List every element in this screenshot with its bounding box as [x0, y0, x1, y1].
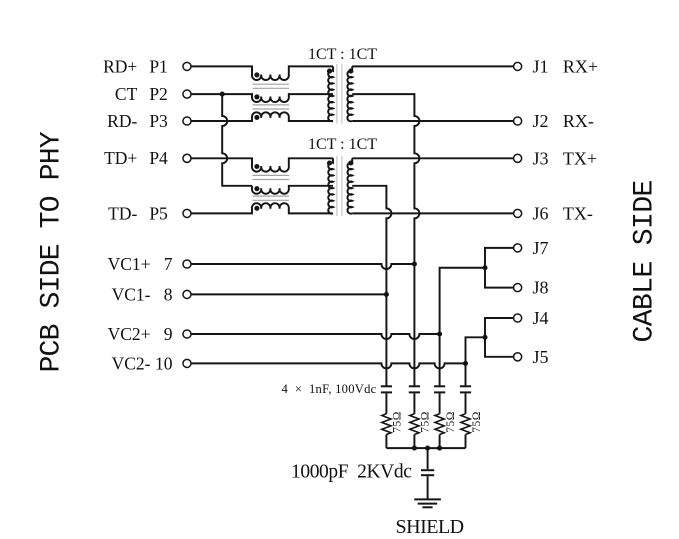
svg-text:J5: J5 [533, 347, 549, 367]
polarity dot T1 secondary (top) [348, 69, 353, 74]
svg-text:VC2+: VC2+ [108, 324, 151, 344]
wire C3 to R3 [439, 393, 441, 413]
svg-text:TD-: TD- [108, 203, 137, 223]
label TD- P5 [108, 203, 168, 223]
wire T1 bottom lead + choke winding T1c (bumps) [191, 112, 333, 121]
wire T1 secondary bottom to J2 [352, 120, 513, 122]
svg-text:1CT : 1CT: 1CT : 1CT [308, 136, 377, 153]
wire R2 to ground rail [413, 435, 415, 449]
svg-text:10: 10 [155, 353, 173, 373]
svg-text:RX-: RX- [563, 111, 594, 131]
svg-text:TD+: TD+ [104, 148, 137, 168]
wire CT P2 to T2 center winding (vertical with hops over P3 and P4 lines) [222, 94, 252, 186]
capacitor C2 1nF (plates) [409, 386, 420, 392]
wire VC2- pin10 to bus x=465 (hops over x=386,414,440) [191, 363, 465, 368]
wire J4/J5 center to bus x=465 and down to capacitor [466, 337, 486, 386]
transformer T1 primary winding (vertical scallops) [328, 66, 333, 121]
label VC2+ 9 [108, 324, 173, 344]
wire VC1- pin8 to bus x=386 [191, 293, 386, 295]
value label R2 75 ohm (rotated) [420, 411, 432, 433]
svg-text:8: 8 [164, 284, 173, 304]
svg-text:1CT : 1CT: 1CT : 1CT [308, 46, 377, 63]
wire J7/J8 bracket [485, 248, 514, 288]
pin P3 (RD-) terminal circle [183, 117, 191, 125]
wire T2 secondary bottom to J6 [352, 212, 513, 214]
junction dot VC1- at x=386 [384, 292, 389, 297]
wire J4/J5 bracket [485, 318, 514, 357]
junction dot J7/J8 center [482, 265, 487, 270]
pin J6 terminal circle [514, 209, 522, 217]
choke core lines T2 (lower pair) [253, 196, 290, 200]
label J7 [533, 238, 549, 258]
polarity dot T1 primary (top) [327, 69, 332, 74]
pin P1 (RD+) terminal circle [183, 62, 191, 70]
pin J2 terminal circle [514, 117, 522, 125]
svg-text:P1: P1 [149, 56, 167, 76]
label RD- P3 [107, 111, 168, 131]
label J2 RX- [533, 111, 594, 131]
wire C2 to R2 [413, 393, 415, 413]
wire T1 secondary center tap to vertical bus (x=414) [352, 94, 419, 386]
transformer T2 core (parallel lines) [337, 156, 342, 216]
svg-text:RD+: RD+ [103, 56, 137, 76]
junction dot VC2+ at x=440 [437, 331, 442, 336]
value label: 4 x 1nF, 100Vdc [282, 382, 377, 396]
svg-text:J2: J2 [533, 111, 549, 131]
svg-text:RD-: RD- [107, 111, 137, 131]
value label: 1000pF 2KVdc [291, 462, 412, 483]
svg-text:VC1-: VC1- [112, 284, 151, 304]
transformer T2 secondary winding (vertical scallops) [347, 158, 352, 213]
label J5 [533, 347, 549, 367]
resistor R1 75ohm (zigzag) [382, 414, 391, 435]
svg-text:J6: J6 [533, 204, 549, 224]
label VC2- 10 [112, 353, 173, 373]
pin 7 (VC1+) terminal circle [183, 260, 191, 268]
svg-text:J1: J1 [533, 57, 549, 77]
label TD+ P4 [104, 148, 168, 168]
wire ground rail [386, 447, 465, 449]
polarity dot T2 primary (top) [327, 160, 332, 165]
pin J3 terminal circle [514, 154, 522, 162]
wire R4 to ground rail [465, 435, 467, 449]
svg-text:VC1+: VC1+ [108, 254, 151, 274]
wire T2 secondary center tap to vertical bus (x=386) [352, 186, 391, 386]
wire J7/J8 center to bus x=440 and down to capacitor [440, 268, 485, 386]
net label: PCB SIDE TO PHY (left side, rotated) [37, 131, 68, 372]
junction dot rail x=427.6 [425, 446, 430, 451]
svg-text:J8: J8 [533, 278, 549, 298]
label J8 [533, 278, 549, 298]
choke core lines T2 (upper pair) [253, 175, 290, 179]
wire T2 top lead + choke winding T2a (scallops) [191, 158, 333, 171]
svg-text:P2: P2 [149, 84, 167, 104]
transformer T1 core (parallel lines) [337, 64, 342, 124]
wire C5 to shield ground [427, 476, 429, 499]
pin P2 (CT) terminal circle [183, 90, 191, 98]
svg-text:75Ω: 75Ω [420, 411, 432, 433]
polarity dot choke T2b [254, 186, 259, 191]
svg-text:RX+: RX+ [563, 57, 598, 77]
svg-text:PCB SIDE TO PHY: PCB SIDE TO PHY [37, 131, 68, 372]
svg-text:TX-: TX- [563, 204, 593, 224]
capacitor C5 1000pF 2KVdc (plates) [421, 470, 434, 475]
label 1CT : 1CT (transformer T1 ratio) [308, 46, 377, 63]
wire T1 center lead + choke winding T1b (scallops) [191, 94, 333, 102]
net label: CABLE SIDE (right side, rotated) [630, 180, 661, 342]
svg-text:75Ω: 75Ω [392, 411, 404, 433]
junction dot rail x=414.4 [412, 446, 417, 451]
label VC1- 8 [112, 284, 173, 304]
resistor R4 75ohm (zigzag) [461, 414, 470, 435]
resistor R3 75ohm (zigzag) [435, 414, 444, 435]
pin 8 (VC1-) terminal circle [183, 290, 191, 298]
wire C4 to R4 [465, 393, 467, 413]
svg-text:J4: J4 [533, 308, 549, 328]
pin J1 terminal circle [514, 62, 522, 70]
polarity dot T2 secondary (top) [348, 160, 353, 165]
capacitor C3 1nF (plates) [434, 386, 445, 392]
svg-text:CABLE SIDE: CABLE SIDE [630, 180, 661, 342]
junction dot rail x=439.6 [437, 446, 442, 451]
transformer T2 primary winding (vertical scallops) [328, 158, 333, 213]
junction dot on CT P2 line [220, 92, 225, 97]
svg-text:VC2-: VC2- [112, 353, 151, 373]
svg-text:9: 9 [164, 324, 173, 344]
value label R1 75 ohm (rotated) [392, 411, 404, 433]
label CT P2 [115, 84, 168, 104]
value label R4 75 ohm (rotated) [471, 411, 483, 433]
capacitor C1 1nF (plates) [381, 386, 392, 392]
svg-text:75Ω: 75Ω [471, 411, 483, 433]
choke core lines T1 (lower pair) [253, 105, 290, 109]
label 1CT : 1CT (transformer T2 ratio) [308, 136, 377, 153]
junction dot J4/J5 center [482, 335, 487, 340]
svg-text:7: 7 [164, 254, 173, 274]
label J6 TX- [533, 204, 593, 224]
wire rail to C5 [427, 448, 429, 469]
capacitor C4 1nF (plates) [460, 386, 471, 392]
svg-text:TX+: TX+ [563, 148, 597, 168]
wire T2 bottom lead + choke winding T2c (bumps) [191, 203, 333, 213]
wire C1 to R1 [385, 393, 387, 413]
label RD+ P1 [103, 56, 168, 76]
svg-text:J3: J3 [533, 148, 549, 168]
pin 10 (VC2-) terminal circle [183, 359, 191, 367]
polarity dot choke T2c [254, 206, 259, 211]
label J1 RX+ [533, 57, 599, 77]
ground symbol (SHIELD earth) [414, 499, 441, 507]
polarity dot choke T1a [254, 72, 259, 77]
wire T2 secondary top to J3 [352, 157, 513, 159]
junction dot VC2- at x=465 [463, 361, 468, 366]
wire T1 secondary top to J1 [352, 65, 513, 67]
pin J7 terminal circle [514, 244, 522, 252]
label J3 TX+ [533, 148, 598, 168]
svg-text:J7: J7 [533, 238, 549, 258]
wire VC1+ pin7 to bus x=414 (hop over x=386) [191, 264, 414, 269]
polarity dot choke T1b [254, 94, 259, 99]
transformer T1 secondary winding (vertical scallops) [347, 66, 352, 121]
wire T2 center lead + choke winding T2b (scallops) [252, 186, 333, 194]
polarity dot choke T2a [254, 164, 259, 169]
junction dot VC1+ at x=414 [412, 261, 417, 266]
svg-text:4 × 1nF, 100Vdc: 4 × 1nF, 100Vdc [282, 382, 377, 396]
pin J8 terminal circle [514, 284, 522, 292]
svg-text:1000pF 2KVdc: 1000pF 2KVdc [291, 462, 412, 483]
wire VC2+ pin9 to bus x=440 (hops over x=386,414) [191, 334, 440, 339]
pin J4 terminal circle [514, 314, 522, 322]
svg-text:CT: CT [115, 84, 138, 104]
wire R1 to ground rail [385, 435, 387, 449]
svg-text:P5: P5 [149, 203, 168, 223]
pin J5 terminal circle [514, 353, 522, 361]
resistor R2 75ohm (zigzag) [410, 414, 419, 435]
svg-text:SHIELD: SHIELD [396, 516, 464, 538]
svg-text:75Ω: 75Ω [445, 411, 457, 433]
svg-text:P3: P3 [149, 111, 168, 131]
net label SHIELD [396, 516, 464, 538]
wire R3 to ground rail [439, 435, 441, 449]
pin P4 (TD+) terminal circle [183, 154, 191, 162]
choke core lines T1 (upper pair) [253, 84, 290, 88]
pin 9 (VC2+) terminal circle [183, 330, 191, 338]
polarity dot choke T1c [254, 115, 259, 120]
pin P5 (TD-) terminal circle [183, 209, 191, 217]
wire T1 top lead + choke winding T1a (scallops) [191, 66, 333, 80]
svg-text:P4: P4 [149, 148, 168, 168]
label VC1+ 7 [108, 254, 173, 274]
value label R3 75 ohm (rotated) [445, 411, 457, 433]
label J4 [533, 308, 549, 328]
